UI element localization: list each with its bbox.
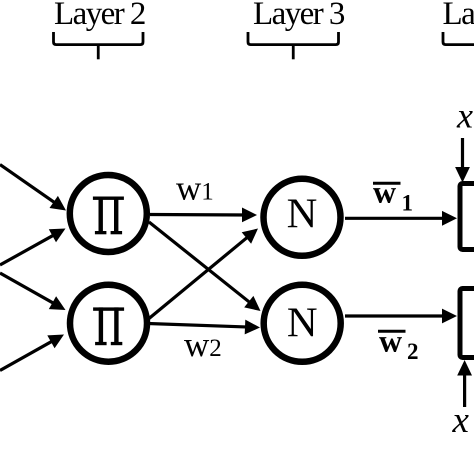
normalization node N1: circle with letter N bbox=[264, 179, 341, 256]
label: w-bar-1 (w with overbar, subscript 1) bbox=[373, 174, 413, 216]
label: w-bar-2 (w with overbar, subscript 2) bbox=[378, 323, 419, 365]
product node P1: circle with capital Pi bbox=[70, 175, 147, 252]
diagonal arrow: P2 to N1 bbox=[149, 229, 258, 319]
input arrow x into box 2 (upward) bbox=[457, 360, 472, 407]
svg-text:Layer 4: Layer 4 bbox=[443, 0, 474, 32]
svg-text:Layer 2: Layer 2 bbox=[54, 0, 145, 32]
svg-text:1: 1 bbox=[402, 190, 414, 215]
normalization node N2: circle with letter N bbox=[264, 285, 341, 362]
svg-text:2: 2 bbox=[407, 339, 419, 364]
arrow w2: P2 to N2 bbox=[148, 320, 260, 335]
svg-text:w: w bbox=[373, 174, 396, 210]
svg-text:w: w bbox=[379, 323, 402, 359]
input arrow x into box 1 (downward) bbox=[455, 138, 470, 183]
arrow wbar2: N2 to consequent box 2 bbox=[345, 309, 457, 324]
brace under Layer 2 bbox=[54, 32, 144, 59]
svg-text:Layer 3: Layer 3 bbox=[253, 0, 345, 32]
input arrow to product node P1 (from lower left) bbox=[0, 229, 66, 266]
svg-text:x: x bbox=[456, 96, 473, 136]
svg-text:N: N bbox=[287, 299, 318, 346]
brace under Layer 3 bbox=[248, 32, 339, 59]
brace under Layer 4 (clipped) bbox=[443, 32, 474, 59]
consequent function box 1 (clipped at right edge) bbox=[460, 184, 474, 250]
consequent function box 2 (clipped at right edge) bbox=[460, 289, 474, 358]
input arrow to product node P2 (from upper left) bbox=[0, 273, 66, 310]
input arrow to product node P1 (from upper left) bbox=[0, 165, 66, 211]
svg-text:x: x bbox=[452, 400, 470, 441]
input arrow to product node P2 (from lower left) bbox=[0, 335, 64, 371]
product node P2: circle with capital Pi bbox=[70, 285, 147, 362]
svg-text:N: N bbox=[287, 191, 318, 238]
arrow wbar1: N1 to consequent box 1 bbox=[345, 211, 457, 226]
diagonal arrow: P1 to N2 bbox=[149, 222, 261, 311]
arrow w1: P1 to N1 bbox=[150, 208, 257, 223]
